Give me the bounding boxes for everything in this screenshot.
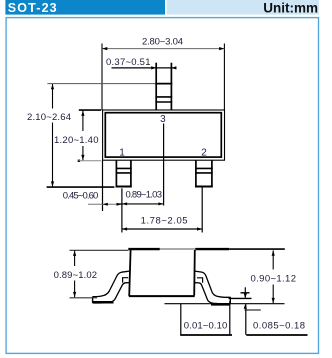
svg-text:Unit:mm: Unit:mm [263, 1, 318, 16]
dim 2.80~3.04 extension right [223, 44, 225, 111]
dim 1.20~1.40 tick bottom [78, 160, 101, 162]
pin 2 right edge [211, 160, 213, 186]
body side left edge [129, 250, 130, 296]
dim 1.20~1.40 tick top [79, 109, 101, 111]
svg-text:1.78~2.05: 1.78~2.05 [141, 216, 188, 227]
dim 1.20~1.40 line upper [82, 110, 84, 131]
dim 0.085~0.18 underline [246, 334, 307, 336]
pin 3 rung a [155, 96, 172, 98]
body top edge left thick [128, 248, 160, 250]
dim 0.085~0.18 lower tail [245, 304, 247, 335]
dim 0.89~1.03 extension pin1 [121, 188, 123, 232]
svg-text:0.085~0.18: 0.085~0.18 [253, 320, 305, 331]
header bar left [5, 0, 165, 15]
dim 0.01~0.10 underline [180, 334, 232, 336]
left lead tip [92, 296, 94, 303]
body outer outline [103, 110, 225, 160]
body inner outline [105, 113, 221, 157]
seating plane line [165, 303, 285, 305]
right lead lower outline [195, 283, 231, 304]
pin 3 left edge / extension [155, 63, 157, 110]
left lead lower outline [93, 283, 130, 303]
dim 0.89~1.03 arrow left [122, 202, 127, 205]
dim 0.89~1.02 arrow up [73, 251, 76, 256]
dim 0.90~1.12 arrow down [272, 298, 275, 303]
svg-text:2.10~2.64: 2.10~2.64 [27, 112, 71, 123]
dim 1.20~1.40 tick bottom dot [78, 160, 80, 162]
top extension left [70, 249, 129, 251]
left lead foot bottom [93, 301, 114, 304]
dim 0.01~0.10 right riser [229, 301, 231, 335]
dim 2.80~3.04 extension left [101, 44, 103, 111]
right lead foot bottom [211, 303, 230, 306]
dim 2.10~2.64 extension top [47, 83, 155, 85]
body top edge middle [160, 248, 196, 250]
svg-text:0.45~0.60: 0.45~0.60 [63, 190, 99, 201]
dim 1.78~2.05 arrow right [197, 227, 202, 230]
center line [163, 124, 165, 206]
dim 0.90~1.12 line upper [272, 250, 274, 269]
pin 3 rung b [155, 101, 172, 103]
dim 0.89~1.02 line upper [74, 251, 76, 266]
right lead tip [229, 297, 231, 304]
dim 2.80~3.04 line [102, 48, 224, 50]
dim 0.37~0.51 line [112, 67, 177, 69]
dim 0.89~1.03 line [118, 203, 164, 205]
pin 1 tip bar [116, 186, 132, 188]
dim 0.085~0.18 tail bar [245, 309, 261, 311]
dim 1.78~2.05 line [122, 228, 202, 230]
right lead upper outline [195, 271, 231, 297]
dim 0.085~0.18 tick top [241, 292, 250, 294]
dim 0.37~0.51 arrow right [171, 66, 176, 69]
pin 3 tip bar [155, 83, 172, 85]
svg-text:1.20~1.40: 1.20~1.40 [54, 135, 99, 146]
dim 0.89~1.02 arrow down [73, 292, 76, 297]
foot top extension line [229, 297, 252, 299]
dim 1.20~1.40 line lower [82, 146, 84, 160]
dim 0.90~1.12 arrow up [272, 250, 275, 255]
svg-text:0.89~1.03: 0.89~1.03 [126, 190, 163, 201]
pin 1 rung b [116, 172, 132, 174]
pin 3 right edge / extension [170, 63, 172, 110]
dim 0.01~0.10 left riser [180, 304, 182, 335]
header bar right [167, 0, 319, 15]
pin 2 tip bar [195, 186, 213, 188]
dim 2.10~2.64 line upper [52, 84, 54, 109]
dim 0.37~0.51 arrow left [151, 66, 156, 69]
dim 0.085~0.18 arrow up [244, 304, 247, 309]
dim 2.80~3.04 arrow right [219, 47, 224, 50]
right lead root step [197, 278, 203, 283]
dim 0.085~0.18 upper tail [244, 287, 246, 297]
dim 2.10~2.64 arrow up [51, 84, 54, 89]
dim 0.89~1.02 ext bottom [70, 297, 98, 299]
svg-text:1: 1 [119, 147, 125, 158]
dim 1.20~1.40 arrow down [81, 155, 84, 160]
body side bottom edge [129, 295, 195, 297]
body top edge right thick [195, 248, 229, 250]
pin 1 left edge [115, 160, 117, 186]
dim 1.78~2.05 arrow left [122, 227, 127, 230]
dim 2.10~2.64 line lower [52, 123, 54, 187]
svg-text:0.90~1.12: 0.90~1.12 [251, 273, 297, 284]
dim 0.45~0.60 line [88, 203, 122, 205]
dim 0.45~0.60 arrow right [117, 203, 122, 206]
svg-text:3: 3 [160, 114, 166, 125]
pin 2 left edge [195, 160, 197, 186]
pin 1 right edge [130, 160, 132, 186]
pin 1 rung a [116, 167, 132, 169]
dim 1.20~1.40 arrow up [81, 111, 84, 116]
svg-text:0.01~0.10: 0.01~0.10 [184, 320, 228, 331]
body side right edge [193, 250, 196, 296]
svg-text:2: 2 [201, 147, 207, 158]
dim 2.80~3.04 arrow left [102, 47, 107, 50]
pin 2 rung a [195, 167, 213, 169]
dim 0.89~1.02 line lower [74, 281, 76, 298]
pin 2 rung b [195, 172, 213, 174]
left lead root step [123, 278, 129, 283]
dim 0.89~1.03 arrow right [158, 202, 163, 205]
dim 1.78~2.05 extension pin2 [201, 188, 203, 233]
dim 0.085~0.18 arrow down [244, 293, 247, 298]
dim 0.90~1.12 line lower [272, 285, 274, 304]
top extension right [229, 248, 285, 250]
svg-text:2.80~3.04: 2.80~3.04 [142, 37, 183, 48]
dim 2.10~2.64 arrow down [51, 181, 54, 186]
left lead upper outline [93, 271, 130, 297]
dim 0.45~0.60 arrow left [103, 203, 108, 206]
svg-text:0.37~0.51: 0.37~0.51 [106, 57, 151, 68]
svg-text:SOT-23: SOT-23 [8, 1, 58, 15]
dim 0.45~0.60 extension left [102, 160, 104, 211]
dim 2.10~2.64 extension bottom [47, 186, 115, 188]
svg-text:0.89~1.02: 0.89~1.02 [54, 270, 98, 281]
